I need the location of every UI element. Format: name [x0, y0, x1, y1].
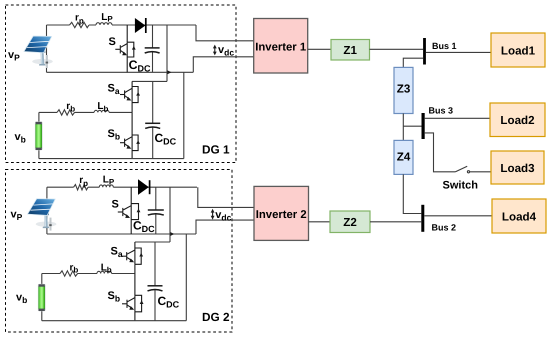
svg-text:vdc: vdc	[218, 44, 234, 57]
solar panel v_P DG1	[24, 36, 53, 68]
resistor r_b DG2	[60, 271, 78, 276]
resistor r_b DG1	[57, 110, 75, 115]
svg-text:CDC: CDC	[129, 58, 151, 73]
wire: battery leads DG1	[38, 112, 40, 158]
Inverter 2 box	[254, 186, 309, 240]
impedance Z1 box	[331, 40, 370, 61]
IGBT S DG2	[118, 187, 141, 234]
IGBT S_b DG1	[120, 112, 140, 158]
capacitor C_DC (battery) DG1	[145, 81, 160, 158]
Bus 2 bar	[421, 205, 424, 232]
wire: midpoint wire DG2	[42, 273, 135, 275]
wire: Z3 to Z4 vertical with branch to Bus 3	[403, 114, 421, 141]
wire: battery leads DG2	[41, 274, 43, 321]
svg-text:CDC: CDC	[155, 131, 177, 147]
wire: DG1 left vertical (behind PV panel)	[46, 25, 48, 72]
svg-text:vdc: vdc	[215, 209, 231, 222]
svg-text:Z2: Z2	[343, 216, 357, 229]
Load3 box	[491, 151, 544, 184]
svg-text:CDC: CDC	[158, 294, 180, 310]
v_dc arrow DG2	[211, 209, 215, 220]
svg-text:Load2: Load2	[500, 114, 534, 127]
svg-text:rb: rb	[66, 101, 75, 113]
svg-text:Inverter 1: Inverter 1	[255, 41, 306, 53]
svg-text:LP: LP	[101, 12, 113, 24]
IGBT S_a DG1	[120, 81, 140, 112]
svg-text:LP: LP	[103, 175, 115, 187]
svg-text:Z4: Z4	[397, 150, 411, 163]
svg-text:DG 1: DG 1	[202, 142, 230, 156]
IGBT S_b DG2	[122, 274, 144, 321]
capacitor C_DC (battery) DG2	[148, 242, 163, 321]
svg-text:rb: rb	[70, 262, 79, 274]
impedance Z3 box	[394, 67, 413, 113]
battery v_b DG1	[35, 122, 43, 151]
Load2 box	[490, 103, 545, 137]
svg-text:Bus 3: Bus 3	[429, 105, 454, 115]
wire: right vertical x=183.8 DG1	[183, 72, 185, 158]
Bus 3 bar	[422, 113, 425, 139]
Bus 1 bar	[423, 38, 426, 65]
wire: DG1 top rail segments	[47, 24, 197, 26]
svg-text:Load4: Load4	[502, 210, 537, 223]
svg-text:vb: vb	[16, 292, 27, 306]
svg-text:Z1: Z1	[343, 44, 357, 57]
Load4 box	[492, 199, 546, 233]
svg-text:Bus 2: Bus 2	[432, 223, 457, 233]
wire: DG2 bottom PV rail	[47, 233, 196, 235]
wire: Z4 to Bus 2	[403, 174, 421, 213]
wire: Bus 1 to Z3	[403, 58, 423, 67]
wire: DG2 top rail segments	[47, 186, 197, 188]
svg-text:Load1: Load1	[501, 44, 536, 57]
wire: DG2 lower inverter input	[196, 220, 254, 234]
DG2 dashed enclosure box	[6, 170, 233, 333]
svg-text:Sa: Sa	[111, 246, 123, 260]
inductor L_P DG1	[96, 23, 112, 25]
impedance Z4 box	[394, 140, 413, 174]
switch blade and contact	[456, 166, 492, 173]
svg-text:vb: vb	[15, 131, 26, 145]
diode D1 DG1	[135, 18, 146, 33]
svg-text:Z3: Z3	[397, 82, 411, 95]
wire: battery top rail DG1	[132, 80, 167, 82]
wire: DG1 bottom PV rail	[47, 71, 194, 73]
wire: Z2 to Bus 2	[370, 221, 421, 223]
Inverter 1 box	[254, 19, 308, 74]
svg-text:vP: vP	[11, 209, 23, 223]
wire: Bus 2 to Load4	[424, 215, 492, 217]
svg-text:Lb: Lb	[97, 101, 108, 113]
diode D2 DG2	[138, 179, 150, 195]
DG1 dashed enclosure box	[6, 5, 237, 163]
wire: vertical from top rail to battery top rail DG2	[169, 187, 171, 242]
svg-text:Lb: Lb	[101, 262, 112, 274]
junction arrow on bottom rail DG2	[170, 232, 174, 236]
resistor r_p DG2	[74, 185, 88, 190]
svg-text:Bus 1: Bus 1	[432, 41, 457, 51]
solar panel v_P DG2	[28, 199, 57, 231]
junction arrow on bottom rail DG1	[167, 70, 171, 74]
inductor L_P DG2	[99, 185, 113, 187]
wire: Bus 3 to Load2	[425, 117, 490, 119]
inductor L_b DG1	[94, 110, 109, 112]
svg-text:Inverter 2: Inverter 2	[256, 209, 307, 221]
svg-text:rp: rp	[75, 12, 84, 25]
battery v_b DG2	[38, 284, 46, 311]
IGBT S_a DG2	[122, 242, 143, 274]
wire: Inverter 2 to Z2	[309, 221, 331, 223]
wire: right vertical x=186.3 DG2	[185, 234, 187, 321]
wire: vertical from top rail to battery top rail DG1	[166, 25, 168, 81]
capacitor C_DC (PV) DG2	[148, 187, 164, 234]
svg-text:DG 2: DG 2	[202, 310, 230, 324]
wire: battery bottom rail DG1	[39, 158, 184, 160]
wire: DG2 step to inverter top input	[198, 187, 254, 207]
resistor r_p DG1	[70, 22, 89, 27]
svg-text:Load3: Load3	[500, 162, 535, 175]
impedance Z2 box	[330, 211, 370, 233]
svg-text:CDC: CDC	[133, 219, 155, 235]
IGBT S DG1	[115, 25, 135, 72]
wire: Z1 to Bus 1	[370, 48, 424, 50]
svg-text:Sa: Sa	[108, 83, 120, 97]
inductor L_b DG2	[97, 271, 112, 273]
wire: battery bottom rail DG2	[42, 320, 187, 322]
svg-text:Switch: Switch	[443, 180, 479, 192]
wire: Bus 1 to Load1	[426, 51, 491, 53]
capacitor C_DC (PV) DG1	[145, 25, 160, 72]
svg-text:S: S	[109, 36, 116, 48]
Load1 box	[491, 33, 545, 67]
svg-text:Sb: Sb	[108, 128, 121, 142]
wire: DG2 left vertical	[46, 187, 48, 234]
v_dc arrow DG1	[213, 45, 217, 56]
wire: midpoint wire DG1	[39, 111, 132, 113]
svg-text:Sb: Sb	[108, 290, 121, 304]
svg-text:vP: vP	[8, 49, 20, 63]
wire: battery top rail DG2	[135, 241, 170, 243]
wire: DG1 lower inverter input	[193, 57, 253, 73]
svg-text:S: S	[112, 199, 119, 211]
wire: DG1 step to inverter top input	[196, 25, 254, 41]
wire: Bus 3 to switch	[425, 133, 456, 172]
wire: Inverter 1 to Z1	[308, 48, 331, 50]
